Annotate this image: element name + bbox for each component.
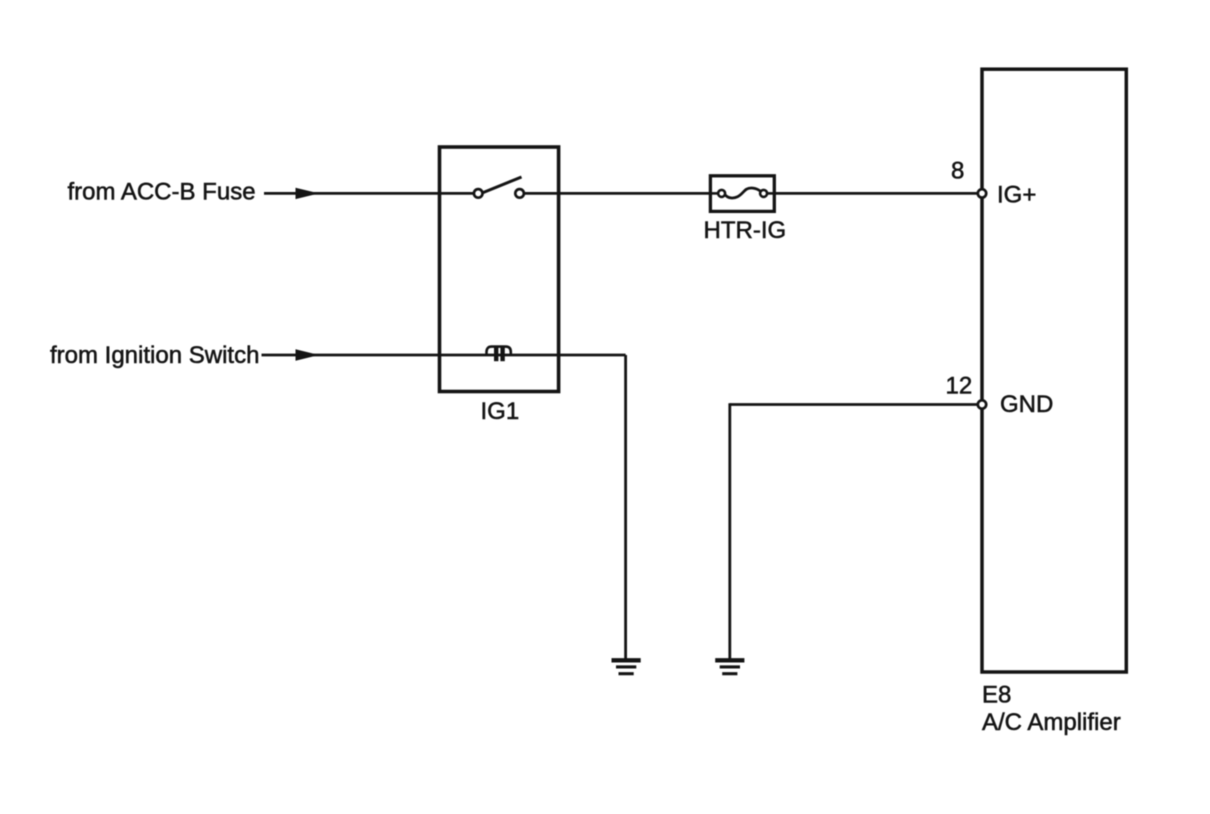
svg-text:IG1: IG1 (481, 398, 520, 425)
svg-text:GND: GND (1000, 391, 1053, 418)
svg-text:HTR-IG: HTR-IG (704, 217, 787, 244)
svg-text:A/C Amplifier: A/C Amplifier (982, 709, 1121, 736)
svg-text:12: 12 (946, 373, 973, 400)
svg-text:8: 8 (951, 158, 964, 185)
svg-text:E8: E8 (982, 682, 1011, 709)
svg-text:IG+: IG+ (997, 182, 1036, 209)
svg-text:from Ignition Switch: from Ignition Switch (50, 342, 259, 369)
svg-text:from ACC-B Fuse: from ACC-B Fuse (68, 179, 256, 206)
